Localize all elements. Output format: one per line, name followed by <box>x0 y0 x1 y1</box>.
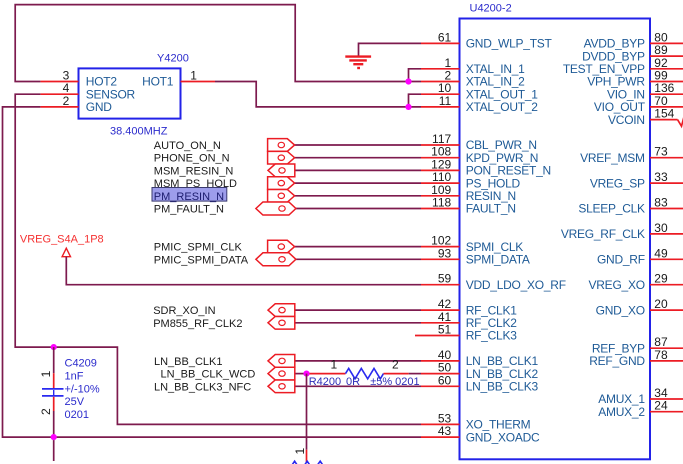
wire PHONE_ON_N to KPD_PWR_N <box>295 157 421 159</box>
wire GND_WLP_TST pin61 to ground <box>359 43 422 56</box>
wire MSM_RESIN_N to PON_RESET_N <box>295 169 421 171</box>
wire SENSOR to XO_THERM <box>15 94 421 424</box>
U4200-2 pin 136 stub <box>650 93 683 95</box>
U4200-2 pin 87 stub <box>650 347 683 349</box>
svg-text:49: 49 <box>654 246 668 260</box>
svg-text:PM_FAULT_N: PM_FAULT_N <box>154 204 224 216</box>
svg-text:GND_WLP_TST: GND_WLP_TST <box>466 37 553 51</box>
junction C4209 top <box>51 344 57 350</box>
svg-text:LN_BB_CLK_WCD: LN_BB_CLK_WCD <box>161 369 256 381</box>
svg-text:U4200-2: U4200-2 <box>470 3 512 15</box>
svg-text:PM_RESIN_N: PM_RESIN_N <box>154 191 224 203</box>
net flag AUTO_ON_N <box>268 139 295 152</box>
wire GND pin2 to GND_XOADC <box>3 107 422 437</box>
svg-text:VREG_RF_CLK: VREG_RF_CLK <box>561 227 645 241</box>
junction C4209 bottom <box>51 434 57 440</box>
net flag PHONE_ON_N <box>268 151 295 164</box>
U4200-2 pin 93 stub <box>421 258 460 260</box>
U4200-2 pin 34 stub <box>650 398 683 400</box>
ground symbol <box>345 55 371 57</box>
junction LN_BB_CLK_WCD branch <box>303 371 309 377</box>
U4200-2 pin 53 stub <box>421 423 460 425</box>
svg-text:VDD_LDO_XO_RF: VDD_LDO_XO_RF <box>466 278 566 292</box>
capacitor C4209 plates <box>42 388 64 390</box>
junction XTAL_OUT node <box>405 104 411 110</box>
U4200-2 pin 43 stub <box>421 436 460 438</box>
U4200-2 pin 33 stub <box>650 182 683 184</box>
U4200-2 pin 20 stub <box>650 309 683 311</box>
svg-text:1: 1 <box>293 447 307 454</box>
U4200-2 pin 154 stub <box>650 119 678 121</box>
U4200-2 pin 117 stub <box>421 144 460 146</box>
U4200-2 pin 110 stub <box>421 182 460 184</box>
svg-text:Y4200: Y4200 <box>157 52 189 64</box>
Y4200 pin 2 stub <box>40 106 78 108</box>
U4200-2 pin 24 stub <box>650 411 683 413</box>
svg-text:33: 33 <box>654 170 668 184</box>
svg-text:C4209: C4209 <box>65 358 97 370</box>
svg-text:154: 154 <box>654 107 674 121</box>
wire LN_BB_CLK1 to pin40 <box>295 360 421 362</box>
U4200-2 pin 59 stub <box>421 284 460 286</box>
svg-text:43: 43 <box>438 424 452 438</box>
wire XTAL_OUT_1 jog <box>409 94 422 107</box>
C4209 top lead <box>53 347 55 373</box>
svg-text:1nF: 1nF <box>65 370 84 382</box>
wire R4200 to pin50 <box>409 373 421 375</box>
svg-text:2: 2 <box>39 408 53 415</box>
svg-text:LN_BB_CLK1: LN_BB_CLK1 <box>154 356 223 368</box>
Y4200 pin 4 stub <box>40 93 78 95</box>
U4200-2 pin 92 stub <box>650 68 683 70</box>
wire XTAL_IN_1 jog <box>409 69 422 82</box>
U4200-2 pin 60 stub <box>421 385 460 387</box>
svg-text:AMUX_2: AMUX_2 <box>598 405 645 419</box>
wire MSM_PS_HOLD to PS_HOLD <box>295 182 421 184</box>
svg-text:HOT1: HOT1 <box>142 75 174 89</box>
wire AUTO_ON_N to CBL_PWR_N <box>295 144 421 146</box>
net flag PMIC_SPMI_DATA <box>256 253 296 266</box>
U4200-2 pin 30 stub <box>650 233 683 235</box>
U4200-2 pin 118 stub <box>421 208 460 210</box>
wire PMIC_SPMI_DATA to SPMI_DATA <box>296 258 421 260</box>
bottom resistor pin1 stub <box>306 450 308 462</box>
power arrow VREG_S4A_1P8 <box>62 248 70 257</box>
svg-text:GND: GND <box>86 100 113 114</box>
U4200-2 pin 11 stub <box>421 106 460 108</box>
U4200-2 pin 42 stub <box>421 309 460 311</box>
C4209 bottom lead <box>53 411 55 461</box>
svg-text:25V: 25V <box>65 396 85 408</box>
U4200-2 pin 99 stub <box>650 81 683 83</box>
svg-text:0201: 0201 <box>65 409 89 421</box>
svg-text:+/-10%: +/-10% <box>65 383 100 395</box>
net flag PM_RESIN_N <box>268 189 295 202</box>
U4200-2 pin 83 stub <box>650 208 683 210</box>
svg-text:GND_RF: GND_RF <box>597 253 645 267</box>
U4200-2 pin 109 stub <box>421 195 460 197</box>
svg-text:REF_GND: REF_GND <box>589 354 645 368</box>
svg-text:±5% 0201: ±5% 0201 <box>370 376 419 388</box>
svg-text:61: 61 <box>438 30 452 44</box>
svg-text:SPMI_DATA: SPMI_DATA <box>466 253 530 267</box>
U4200-2 pin 80 stub <box>650 42 683 44</box>
svg-text:FAULT_N: FAULT_N <box>466 202 516 216</box>
U4200-2 pin 40 stub <box>421 360 460 362</box>
U4200-2 pin 29 stub <box>650 284 683 286</box>
svg-text:1: 1 <box>190 69 197 83</box>
svg-text:20: 20 <box>654 297 668 311</box>
U4200-2 pin 50 stub <box>421 373 460 375</box>
svg-text:VREG_S4A_1P8: VREG_S4A_1P8 <box>20 234 104 246</box>
svg-text:RF_CLK3: RF_CLK3 <box>466 329 518 343</box>
U4200-2 pin 49 stub <box>650 258 683 260</box>
svg-text:78: 78 <box>654 348 668 362</box>
resistor R4200 pin2 stub <box>384 373 409 375</box>
resistor R4200 pin1 stub <box>307 373 346 375</box>
net flag PM855_RF_CLK2 <box>268 316 295 329</box>
svg-text:60: 60 <box>438 373 452 387</box>
wire HOT2 to XTAL_IN_2 loop <box>15 5 421 82</box>
svg-text:AUTO_ON_N: AUTO_ON_N <box>154 140 221 152</box>
Y4200 pin 3 stub <box>40 81 78 83</box>
wire SDR_XO_IN to RF_CLK1 <box>295 309 421 311</box>
svg-text:2: 2 <box>63 94 70 108</box>
wire PMIC_SPMI_CLK to SPMI_CLK <box>295 246 421 248</box>
net flag LN_BB_CLK_WCD <box>268 367 295 380</box>
svg-text:1: 1 <box>39 370 53 377</box>
U4200-2 pin 41 stub <box>421 322 460 324</box>
Y4200 pin 1 stub <box>181 81 216 83</box>
wire PM855_RF_CLK2 to RF_CLK2 <box>295 322 421 324</box>
svg-text:PMIC_SPMI_DATA: PMIC_SPMI_DATA <box>154 254 249 266</box>
U4200-2 pin 10 stub <box>421 93 460 95</box>
svg-text:59: 59 <box>438 272 452 286</box>
crystal Y4200 body <box>79 68 181 118</box>
U4200-2 pin 73 stub <box>650 157 683 159</box>
svg-text:SLEEP_CLK: SLEEP_CLK <box>578 202 645 216</box>
net flag MSM_PS_HOLD <box>268 177 295 190</box>
svg-text:11: 11 <box>439 94 452 108</box>
svg-text:R4200: R4200 <box>309 376 341 388</box>
svg-text:30: 30 <box>654 221 668 235</box>
svg-text:XTAL_OUT_2: XTAL_OUT_2 <box>466 100 539 114</box>
svg-text:PM855_RF_CLK2: PM855_RF_CLK2 <box>153 318 242 330</box>
net flag MSM_RESIN_N <box>268 164 295 177</box>
svg-text:LN_BB_CLK3_NFC: LN_BB_CLK3_NFC <box>154 381 251 393</box>
svg-text:VCOIN: VCOIN <box>608 113 645 127</box>
svg-text:83: 83 <box>654 196 668 210</box>
U4200-2 pin 108 stub <box>421 157 460 159</box>
svg-text:51: 51 <box>438 323 452 337</box>
wire LN_BB_CLK3 to pin60 <box>295 385 421 387</box>
svg-text:73: 73 <box>654 145 668 159</box>
svg-text:SDR_XO_IN: SDR_XO_IN <box>153 305 215 317</box>
svg-text:PMIC_SPMI_CLK: PMIC_SPMI_CLK <box>154 242 243 254</box>
net flag LN_BB_CLK1 <box>268 355 295 368</box>
svg-text:24: 24 <box>654 399 668 413</box>
resistor R4200 zigzag <box>346 368 384 378</box>
junction XTAL_IN node <box>405 78 411 84</box>
U4200-2 pin 129 stub <box>421 169 460 171</box>
net flag PM_FAULT_N <box>256 202 296 215</box>
U4200-2 pin 78 stub <box>650 360 683 362</box>
wire LN_BB_CLK_WCD to R4200 <box>295 373 309 375</box>
C4209 pin1 stub <box>53 373 55 388</box>
U4200-2 pin 70 stub <box>650 106 683 108</box>
bottom resistor zigzag (clipped) <box>288 461 326 464</box>
svg-text:GND_XO: GND_XO <box>596 303 645 317</box>
svg-text:VREG_SP: VREG_SP <box>590 176 645 190</box>
wire VREG to VDD_LDO_XO_RF pin59 <box>66 257 421 285</box>
wire PM_FAULT_N to FAULT_N <box>296 208 421 210</box>
U4200-2 pin 1 stub <box>421 68 460 70</box>
svg-text:LN_BB_CLK3: LN_BB_CLK3 <box>466 380 539 394</box>
net label PM_RESIN_N highlighted <box>152 188 227 202</box>
U4200-2 pin 89 stub <box>650 55 683 57</box>
U4200-2 pin 51 stub <box>415 335 460 337</box>
net flag PMIC_SPMI_CLK <box>268 240 295 253</box>
wire HOT1 to XTAL_OUT_2 <box>215 82 421 107</box>
C4209 pin2 stub <box>53 397 55 411</box>
IC U4200-2 body <box>460 19 651 460</box>
wire PM_RESIN_N to RESIN_N <box>295 195 421 197</box>
svg-text:MSM_RESIN_N: MSM_RESIN_N <box>154 165 234 177</box>
wire WCD branch down <box>306 374 308 450</box>
pin name VCOIN extra wire zigzag start <box>678 118 683 127</box>
U4200-2 pin 2 stub <box>421 81 460 83</box>
svg-text:VREG_XO: VREG_XO <box>589 278 645 292</box>
svg-text:118: 118 <box>432 196 451 210</box>
svg-text:2: 2 <box>392 357 399 371</box>
U4200-2 pin 102 stub <box>421 246 460 248</box>
svg-text:1: 1 <box>331 357 338 371</box>
svg-text:0R: 0R <box>346 376 360 388</box>
svg-text:GND_XOADC: GND_XOADC <box>466 430 540 444</box>
svg-text:29: 29 <box>654 272 668 286</box>
svg-text:VREF_MSM: VREF_MSM <box>580 151 645 165</box>
svg-text:93: 93 <box>438 246 452 260</box>
U4200-2 pin 61 stub <box>421 42 460 44</box>
net flag SDR_XO_IN <box>268 304 295 317</box>
net flag LN_BB_CLK3_NFC <box>268 380 295 393</box>
svg-text:PHONE_ON_N: PHONE_ON_N <box>154 153 230 165</box>
svg-text:38.400MHZ: 38.400MHZ <box>110 125 168 137</box>
